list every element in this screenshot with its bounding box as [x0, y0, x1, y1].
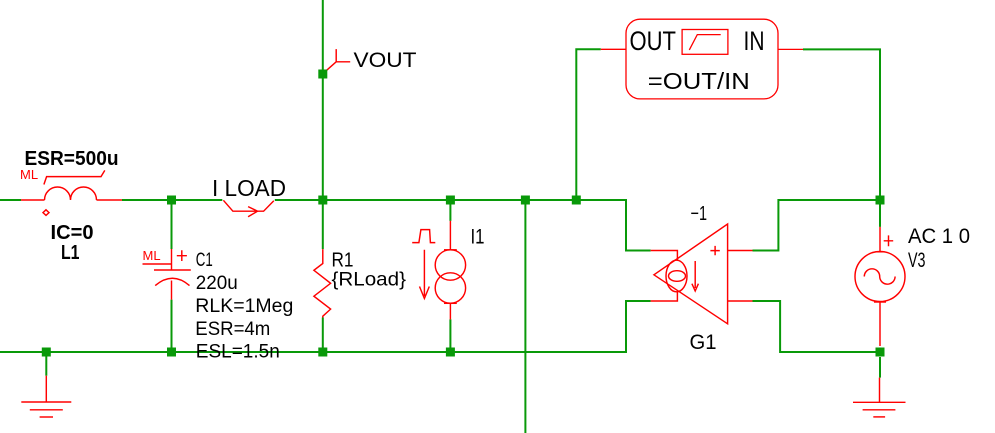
- node R1 top: [318, 196, 327, 205]
- resistor R1: [314, 249, 331, 317]
- svg-text:VOUT: VOUT: [354, 48, 417, 72]
- node C1 top: [167, 196, 176, 205]
- wire V3 below node to ground: [879, 357, 881, 378]
- svg-text:ESL=1.5n: ESL=1.5n: [196, 341, 280, 363]
- node VOUT: [318, 70, 327, 79]
- wire G1 bottom output to V3 node: [753, 301, 881, 352]
- svg-text:C1: C1: [196, 249, 213, 271]
- wire C1 branch: [171, 200, 173, 352]
- svg-text:L1: L1: [61, 241, 80, 264]
- svg-text:ML: ML: [20, 167, 38, 182]
- wire G1 top output to bus: [753, 200, 881, 251]
- node ground left: [42, 348, 51, 357]
- svg-text:G1: G1: [690, 331, 717, 354]
- svg-text:RLK=1Meg: RLK=1Meg: [195, 295, 293, 317]
- capacitor C1: [143, 249, 191, 300]
- ground (left): [21, 376, 71, 417]
- svg-text:ESR=500u: ESR=500u: [25, 147, 119, 170]
- inductor L1: [21, 170, 122, 215]
- node I1 top: [446, 196, 455, 205]
- node C1 bottom: [167, 348, 176, 357]
- probe VOUT: [324, 49, 350, 72]
- svg-text:{RLoad}: {RLoad}: [332, 269, 407, 291]
- wire I1 branch: [449, 200, 451, 352]
- svg-text:I LOAD: I LOAD: [212, 175, 286, 201]
- voltage source V3: [855, 227, 905, 346]
- svg-text:AC 1 0: AC 1 0: [908, 225, 970, 248]
- vccs G1: [651, 224, 753, 324]
- current marker I LOAD: [223, 200, 273, 217]
- svg-text:−1: −1: [691, 203, 708, 225]
- node R1 bottom: [318, 348, 327, 357]
- node mid vertical: [521, 196, 530, 205]
- svg-text:I1: I1: [471, 226, 485, 249]
- wire main bus left segment: [0, 200, 651, 251]
- node box branch: [572, 196, 581, 205]
- svg-text:220u: 220u: [196, 272, 238, 294]
- svg-text:ESR=4m: ESR=4m: [195, 318, 270, 340]
- wire mid vertical off bottom: [524, 200, 526, 433]
- wire box right to V3: [803, 49, 880, 227]
- node V3 bottom: [876, 348, 885, 357]
- node junction squares: [42, 70, 885, 357]
- wire bottom bus: [0, 301, 651, 352]
- svg-text:OUT: OUT: [630, 26, 677, 56]
- ground (V3): [853, 378, 906, 417]
- current source I1: [412, 221, 465, 320]
- wire box left to bus: [576, 49, 601, 200]
- node V3 top: [876, 196, 885, 205]
- wire vout vertical: [322, 0, 324, 352]
- svg-text:ML: ML: [143, 248, 161, 263]
- svg-text:IN: IN: [744, 26, 765, 56]
- node I1 bottom: [446, 348, 455, 357]
- evaluator box OUT/IN: [601, 19, 803, 99]
- svg-text:=OUT/IN: =OUT/IN: [648, 68, 750, 94]
- svg-text:V3: V3: [908, 249, 926, 272]
- wire left ground stub: [45, 352, 47, 376]
